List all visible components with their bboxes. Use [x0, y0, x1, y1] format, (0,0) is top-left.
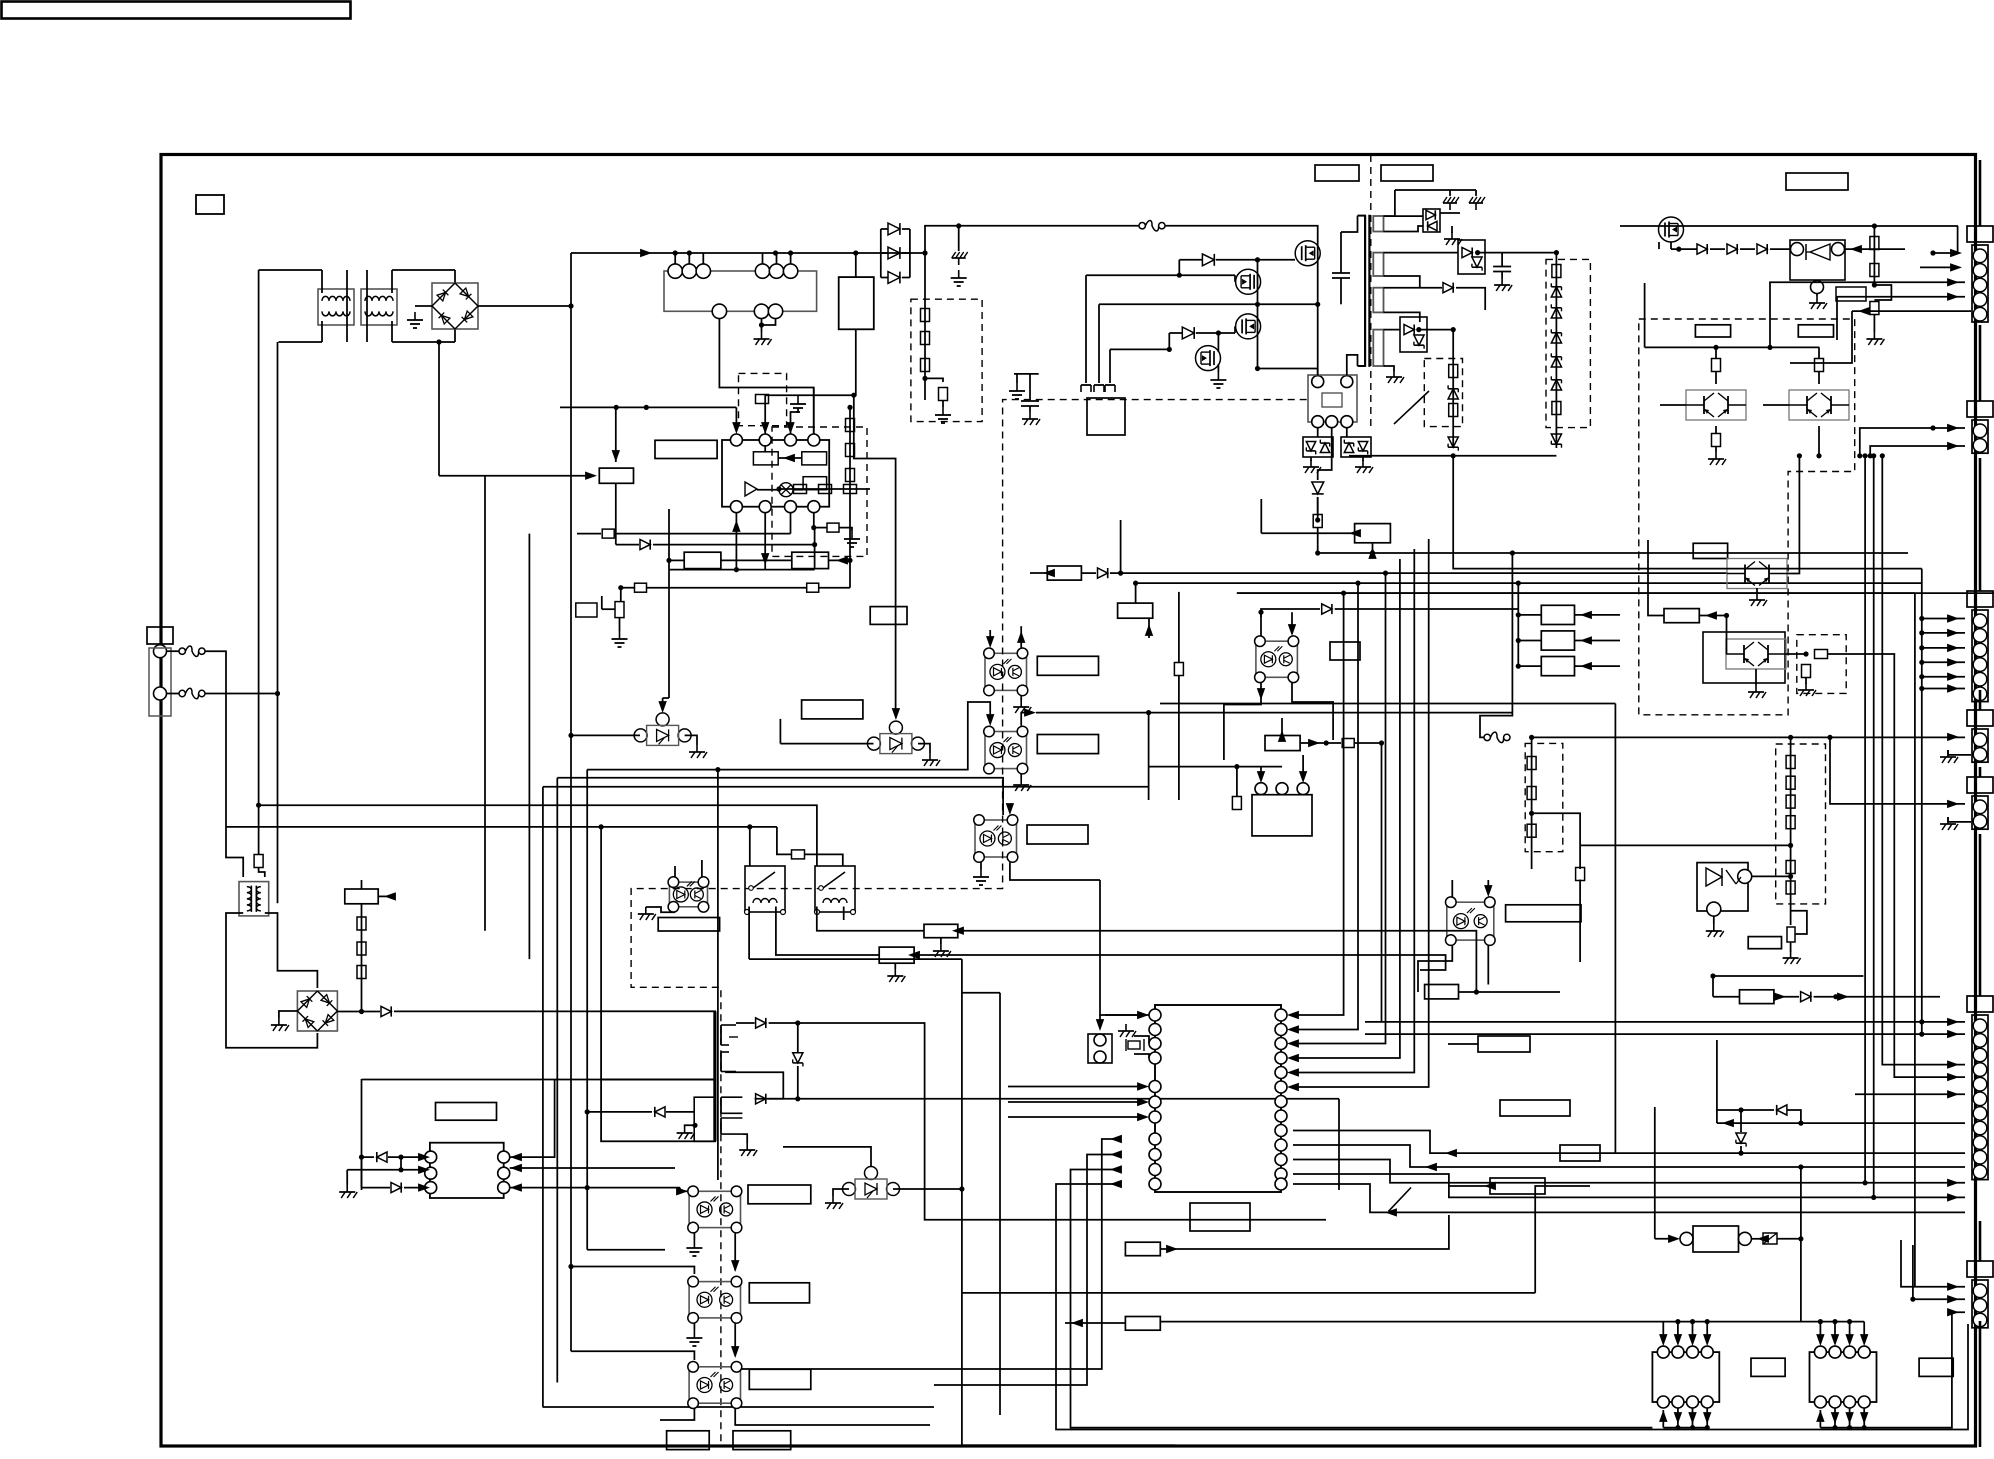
- resistor RL5: [1786, 861, 1795, 874]
- photocoupler PC3: [974, 815, 1018, 863]
- junction cn6 p2: [1919, 1032, 1924, 1037]
- junction cn3 bus 6: [1919, 686, 1924, 691]
- resistor RL6: [1786, 881, 1795, 894]
- ground ycap a: [1009, 383, 1025, 399]
- junction rail x675: [673, 250, 678, 255]
- wire S2 in: [1518, 640, 1541, 642]
- wire D81: [1717, 1109, 1774, 1111]
- resistor R77s: [1342, 739, 1354, 748]
- wire ladder left: [880, 229, 882, 278]
- wire 1615 drop: [1614, 704, 1616, 1154]
- wire ycap a: [1016, 374, 1018, 383]
- junction gq3: [1167, 347, 1172, 352]
- junction DB2 out: [359, 1009, 364, 1014]
- wire gate drop Q1: [1178, 260, 1180, 275]
- wire D1 l: [362, 1011, 381, 1013]
- IC2 inner box B: [802, 452, 827, 465]
- junction relay gnd: [759, 322, 764, 327]
- wire cn6 p5: [1855, 1093, 1965, 1095]
- label box IC2: [655, 440, 717, 458]
- relay RY1 top pin 675: [668, 264, 682, 278]
- wire bus 587a: [621, 587, 634, 589]
- relay RY1 body: [664, 271, 817, 311]
- wire F2 to node N1: [205, 693, 278, 695]
- junction R58: [1803, 651, 1808, 656]
- junction ladder2 top: [1788, 735, 1793, 740]
- zener array ZD1 box: [1303, 437, 1333, 457]
- junction cn5 feed: [1827, 735, 1832, 740]
- wire q5 source: [1670, 242, 1672, 249]
- wire PC2 out: [1021, 713, 1030, 726]
- junction cn3 bus 5: [1919, 674, 1924, 679]
- wire RY2 c lead: [1317, 428, 1319, 437]
- wire DB1 plus out: [478, 305, 571, 307]
- wire SCR3 top: [783, 1147, 871, 1167]
- drive transformer T4: [745, 866, 786, 915]
- fuse F3: [1139, 220, 1165, 231]
- label box PC2: [1037, 735, 1098, 754]
- junction rail x689: [687, 250, 692, 255]
- ground R61: [844, 531, 860, 547]
- arrow R74: [1043, 569, 1055, 577]
- wire bus 976: [1713, 975, 1863, 977]
- wire cn1 p0: [1957, 226, 1959, 253]
- wire PC9 inL: [571, 1351, 694, 1360]
- wire bus 349: [1110, 348, 1169, 350]
- wire D2 r: [388, 1156, 401, 1158]
- arrow R96: [1349, 529, 1361, 537]
- zener D46: [1551, 434, 1561, 448]
- polarized cap X2s: [1763, 1233, 1777, 1244]
- box around Q55: [1703, 632, 1785, 683]
- junction D23: [1315, 517, 1320, 522]
- wire PC2 in: [989, 713, 991, 721]
- diode pack D31 box: [1423, 209, 1440, 232]
- wire T5 feed: [777, 827, 791, 855]
- zener D32b: [1472, 257, 1482, 271]
- resistor R55: [1815, 359, 1824, 372]
- wire ycap c: [1029, 407, 1031, 413]
- relay RY2 pin d: [1326, 416, 1338, 428]
- wire IC7 bot 1692: [1692, 1408, 1694, 1428]
- wire IC1 top: [855, 253, 857, 277]
- wire D22 left: [1169, 332, 1182, 334]
- wire v1000: [999, 993, 1001, 1415]
- wire long v1914: [1914, 593, 1916, 1287]
- wire SCR1 top: [662, 698, 664, 707]
- junction cn2c: [1930, 425, 1935, 430]
- reset IC6 pin a: [1094, 1034, 1106, 1046]
- connector CN6: [1967, 996, 1993, 1180]
- wire DB2 gnd stem: [279, 1011, 298, 1018]
- wire IC7 bot 1677: [1677, 1408, 1679, 1428]
- arrow cn6 p1: [1947, 1018, 1959, 1026]
- arrow R75 up: [1145, 624, 1153, 636]
- ground DB1: [407, 312, 423, 328]
- component X2 body: [1693, 1226, 1739, 1252]
- wire cn3 p1: [1922, 618, 1965, 620]
- wire D6 r: [769, 1098, 1339, 1100]
- wire IC2 p3 hook: [791, 408, 799, 420]
- arrow R89: [1484, 1182, 1496, 1190]
- IC2 inner box A: [753, 452, 778, 465]
- wire R77 in: [1281, 718, 1283, 736]
- chassis ground sec2: [1469, 197, 1485, 210]
- wire T6 aux gnd: [685, 1124, 695, 1127]
- diode pack D34 box: [1400, 317, 1427, 352]
- wire IC5 feed 1: [1293, 593, 1344, 1015]
- wire F1 to node L1: [205, 651, 243, 877]
- wire R54 a: [1715, 347, 1717, 358]
- wire CN chain 6: [1979, 834, 1982, 996]
- wire R91 gnd: [894, 963, 896, 969]
- diode D34a: [1404, 325, 1414, 335]
- arrow cn3 p2: [1947, 629, 1959, 637]
- arrow IC8 in 2: [1831, 1334, 1839, 1346]
- junction u51r: [1872, 223, 1877, 228]
- wire T1 w3 bot: [1384, 312, 1420, 322]
- relay RY2 inner: [1322, 393, 1342, 407]
- ground D31: [1444, 232, 1462, 245]
- wire cn3 bus: [1921, 569, 1923, 1035]
- junction v1865: [1863, 453, 1868, 458]
- ground PC3: [973, 869, 989, 885]
- relay RY2 pin c: [1312, 416, 1324, 428]
- junction D2b: [398, 1155, 403, 1160]
- label box S2: [1541, 631, 1574, 650]
- junction 1453 329: [1451, 327, 1456, 332]
- wire IC7 feed 2: [1677, 1322, 1679, 1341]
- wire v961: [961, 959, 963, 1445]
- wire pair2 in: [1763, 404, 1789, 406]
- wire q5 to d51: [1671, 248, 1697, 250]
- wire R24 dn: [942, 401, 944, 408]
- wire drain rail low: [1317, 304, 1319, 375]
- ground ZD2: [1355, 460, 1373, 473]
- wire PC7 gnd: [693, 1233, 695, 1240]
- dashed box feedback A: [739, 373, 787, 425]
- label box pair2: [1798, 325, 1833, 337]
- wire prim 1086: [1085, 275, 1087, 383]
- IC5 left pin y1086: [1149, 1081, 1161, 1093]
- resistor RL2: [1786, 776, 1795, 789]
- wire 1716 up: [1716, 1040, 1718, 1123]
- wire relay coil lead 689: [688, 253, 690, 264]
- arrow IC4 p1: [418, 1153, 430, 1161]
- wire PC4 bl: [1224, 683, 1261, 760]
- relay RY1 top pin 762: [755, 264, 769, 278]
- ground R90: [933, 944, 951, 957]
- IC4 left pin y1173: [425, 1167, 437, 1179]
- arrow R91: [908, 951, 920, 959]
- label box PC4: [1330, 642, 1360, 660]
- junction IC8 3: [1847, 1319, 1852, 1324]
- ground IC4: [339, 1185, 357, 1198]
- arrow IC5 o4: [1110, 1180, 1122, 1188]
- wire cn7 p1: [1901, 1240, 1965, 1287]
- wire IC7 feed 1: [1662, 1322, 1664, 1341]
- junction R54: [1713, 345, 1718, 350]
- arrow IC8 bot1: [1816, 1410, 1824, 1422]
- arrow R67: [836, 556, 848, 564]
- wire PC3 out: [1010, 862, 1100, 880]
- wire PC1 in: [989, 630, 991, 643]
- wire X2 out: [1751, 1238, 1762, 1240]
- IC7 bottom pin 1: [1657, 1396, 1669, 1408]
- zener array ZD2 box: [1341, 437, 1371, 457]
- wire 1874 drop: [1873, 226, 1875, 285]
- wire cn3 p4: [1922, 661, 1965, 663]
- wire IC8 bot 1849: [1849, 1408, 1851, 1428]
- T6 secondary pad 1: [720, 1025, 722, 1045]
- wire bus 368: [1258, 368, 1318, 370]
- line filter choke LF1: [318, 289, 354, 325]
- arrow IC7 bot1: [1659, 1410, 1667, 1422]
- junction p4 line: [811, 525, 816, 530]
- wire 1218 drop: [1217, 333, 1219, 352]
- arrow IC4 p3: [418, 1183, 430, 1191]
- wire R84 rail: [1159, 1322, 1161, 1324]
- arrow IC5 p2: [1137, 1082, 1149, 1090]
- wire bridge1 bottom lead: [454, 328, 456, 342]
- resistor R58: [1815, 650, 1828, 659]
- IC5 left pin y1015: [1149, 1009, 1161, 1021]
- ground R53: [1866, 332, 1884, 345]
- wire IC4 p2r: [510, 1167, 675, 1169]
- arrow cn1 p5: [1858, 307, 1870, 315]
- IC7 top pin 1: [1657, 1346, 1669, 1358]
- wire cn1 feed1: [1933, 252, 1957, 254]
- resistor R5: [357, 966, 366, 979]
- wire IC5 in1: [1105, 1014, 1149, 1016]
- junction cn1 p3: [1767, 345, 1772, 350]
- arrow X2 out: [1757, 1235, 1769, 1243]
- ground Q55: [1748, 685, 1766, 698]
- label box SCR2: [802, 700, 863, 719]
- wire ladder right: [909, 229, 911, 278]
- arrow cn6 p6: [1722, 1119, 1734, 1127]
- wire bus 1445: [962, 1444, 1175, 1446]
- wire 669 drop: [668, 509, 670, 570]
- wire R54 b: [1715, 372, 1717, 385]
- junction R95 in: [1710, 973, 1715, 978]
- ground Q4: [1210, 372, 1226, 388]
- junction fb: [776, 486, 781, 491]
- wire CN chain 2: [1979, 325, 1982, 401]
- wire bus 587b: [647, 587, 806, 589]
- arrow IC7 in 2: [1674, 1334, 1682, 1346]
- wire pair rail drop: [1644, 283, 1646, 347]
- wire PC1 gnd: [1020, 696, 1022, 700]
- wire RY3 p3: [1302, 755, 1304, 778]
- junction IC7 bot 1707: [1705, 1425, 1710, 1430]
- junction 850 top: [847, 405, 852, 410]
- wire IC1 bottom to pin: [765, 329, 856, 434]
- resistor RL1: [1786, 756, 1795, 769]
- wire CN_AC pin1 to fuse F1: [167, 650, 180, 652]
- thyristor SCR3: [843, 1167, 900, 1200]
- arrow IC5 in1: [1137, 1011, 1149, 1019]
- ground DB2: [271, 1018, 289, 1031]
- relay RY3 pin2: [1276, 783, 1288, 795]
- wire R95 in: [1713, 996, 1740, 998]
- junction IC7 2: [1675, 1319, 1680, 1324]
- wire EMI left drop: [258, 270, 260, 855]
- wire Q2 gate lead: [1234, 275, 1236, 282]
- wire IC8 feed 4: [1863, 1322, 1865, 1341]
- IC4 right pin y1187: [498, 1182, 510, 1194]
- wire choke1 left top: [321, 270, 323, 293]
- resistor R80c: [1576, 868, 1585, 881]
- junction 571 pc8: [568, 1264, 573, 1269]
- wire CN5 gnd: [1948, 817, 1971, 822]
- wire D33 right: [1456, 288, 1485, 310]
- wire long v1873: [1873, 456, 1875, 1198]
- wire Q3 gate lead: [1234, 326, 1236, 333]
- resistor R3: [357, 917, 366, 930]
- wire EMI bottom rail: [279, 341, 323, 343]
- arrow PC8 in: [731, 1260, 739, 1272]
- wire VR1 wiper: [602, 608, 615, 610]
- wire ladder2: [1555, 253, 1557, 448]
- IC2 bottom pin 790: [785, 501, 797, 513]
- wire R75 up: [1135, 583, 1137, 603]
- wire SCR2 feed: [779, 719, 781, 744]
- arrow IC8 in 4: [1860, 1334, 1868, 1346]
- junction D82b: [1738, 1151, 1743, 1156]
- diode D6: [756, 1094, 766, 1104]
- photocoupler PC6: [1446, 897, 1496, 945]
- wire IC8 rail right: [1864, 1312, 1965, 1427]
- wire 615 boxA: [615, 407, 617, 462]
- wire prim 1099: [1098, 304, 1100, 383]
- wire cn3 p5: [1922, 676, 1965, 678]
- wire R55 b: [1818, 372, 1820, 385]
- junction 1148: [1146, 710, 1151, 715]
- resistor R97: [1313, 515, 1322, 528]
- wire bus 533: [577, 533, 601, 535]
- arrow IC4 p3r: [510, 1183, 522, 1191]
- wire C10 down: [1340, 279, 1342, 305]
- label box S3: [1541, 657, 1574, 676]
- wire Q53 out: [1818, 426, 1820, 456]
- wire IC2 mult c: [793, 489, 803, 491]
- ground U51: [1809, 296, 1827, 309]
- junction feed 2: [1355, 581, 1360, 586]
- arrow IC5 rin y1087: [1287, 1083, 1299, 1091]
- box R86: [1478, 1036, 1530, 1052]
- wire bus 583: [1136, 582, 1923, 584]
- junction cn3 bus 4: [1919, 660, 1924, 665]
- wire EMI top rail: [259, 269, 322, 271]
- IC8 body: [1810, 1352, 1877, 1402]
- wire CN chain 1: [1979, 160, 1982, 226]
- IC8 bottom pin 4: [1858, 1396, 1870, 1408]
- IC5 right pin y1101: [1275, 1096, 1287, 1108]
- wire 814 link: [814, 528, 816, 570]
- wire cn1 feed2: [1920, 266, 1957, 268]
- junction R90 out: [1474, 989, 1479, 994]
- wire bus 475: [439, 475, 593, 477]
- thyristor SCR2: [867, 721, 924, 754]
- junction bus304 b: [1315, 302, 1320, 307]
- relay RY1 bottom pin 7: [712, 304, 726, 318]
- IC5 right pin y1029: [1275, 1024, 1287, 1036]
- IC7 top pin 2: [1672, 1346, 1684, 1358]
- resistor R80: [1527, 787, 1536, 800]
- junction 439: [436, 339, 441, 344]
- arrow PC4 in: [1288, 624, 1296, 636]
- junction 1556 252: [1554, 250, 1559, 255]
- wire p1p2 link: [400, 1157, 402, 1170]
- wire C11 up: [1501, 253, 1503, 266]
- junction rail x775: [773, 250, 778, 255]
- wire T1 core b: [1368, 215, 1370, 367]
- wire T1 w1 top: [1384, 190, 1395, 216]
- wire IC5 feed 4: [1293, 559, 1400, 1058]
- resistor R44: [1449, 404, 1458, 417]
- arrow R96 up: [1368, 547, 1376, 559]
- IC7 bottom pin 4: [1701, 1396, 1713, 1408]
- wire cn7 p2: [1913, 1245, 1965, 1299]
- component X2 pin2: [1738, 1232, 1751, 1245]
- resistor R72: [819, 485, 832, 494]
- wire fb chain: [779, 488, 870, 490]
- wire D31 gnd: [1451, 226, 1453, 233]
- resistor R71b: [846, 444, 855, 457]
- wire R61: [814, 527, 827, 529]
- wire PC4 d: [1261, 609, 1320, 617]
- arrow cn6 p5: [1947, 1090, 1959, 1098]
- junction U52 k: [1788, 874, 1793, 879]
- relay RY3 pin3: [1297, 783, 1309, 795]
- arrow cn1 p2: [1950, 263, 1962, 271]
- shunt reg U52 symbol: [1706, 868, 1722, 886]
- wire CN chain 5: [1979, 767, 1982, 777]
- label box IC5: [1190, 1203, 1250, 1231]
- arrow IC2 pin1: [732, 422, 740, 434]
- wire R75 in: [1148, 618, 1150, 638]
- resistor RL4: [1786, 816, 1795, 829]
- wire D7 l: [587, 1111, 652, 1113]
- wire R97 up: [1317, 497, 1319, 515]
- wire cn6 p2: [1365, 1033, 1965, 1035]
- wire VR2 dn: [1790, 942, 1792, 952]
- wire D11 r: [902, 228, 910, 230]
- wire D71 r: [1110, 572, 1121, 574]
- wire D3 vert: [361, 1157, 363, 1188]
- junction SCR2 feed: [851, 393, 856, 398]
- wire PC9 br: [735, 1409, 930, 1426]
- wire ladder3: [1452, 330, 1454, 448]
- wire D71 l: [1081, 572, 1096, 574]
- IC8 top pin 2: [1829, 1346, 1841, 1358]
- wire IC2 p3 dn: [790, 513, 792, 534]
- wire F4 feed: [1480, 553, 1512, 737]
- box R87: [1500, 1100, 1570, 1116]
- ground T6 aux: [677, 1126, 695, 1139]
- junction ladder2 mid: [1788, 843, 1793, 848]
- wire D31 out: [1440, 212, 1460, 214]
- resistor R23: [921, 359, 930, 372]
- arrow PC7 in: [676, 1187, 688, 1195]
- relay RY1 bottom pin 8: [754, 304, 768, 318]
- wire VR2 tap: [1791, 911, 1807, 934]
- wire bus 568: [1453, 456, 1922, 569]
- wire PC8 gnd: [693, 1323, 695, 1330]
- wire bus 275: [1086, 274, 1235, 276]
- wire bus 777: [557, 778, 1003, 815]
